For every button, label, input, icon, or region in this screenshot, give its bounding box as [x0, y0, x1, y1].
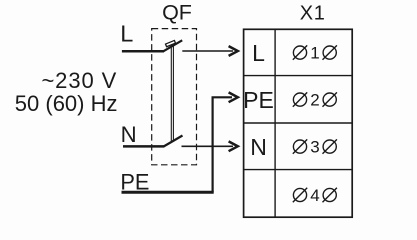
svg-text:PE: PE — [243, 87, 274, 113]
svg-text:L: L — [252, 40, 265, 66]
breaker QF pole 1 blade — [163, 40, 182, 51]
terminal block column divider — [274, 29, 276, 217]
svg-text:X1: X1 — [300, 3, 326, 25]
terminal 2 — [293, 92, 337, 106]
arrow L — [229, 46, 238, 56]
wire N input — [123, 145, 164, 148]
breaker QF pole 1 release box — [166, 40, 176, 46]
wire L output — [182, 50, 233, 52]
terminal 4 — [293, 188, 337, 202]
svg-text:3: 3 — [310, 138, 319, 157]
breaker QF mechanical link — [170, 46, 172, 141]
terminal block row dividers — [244, 75, 353, 77]
wire N output — [182, 145, 234, 147]
svg-text:PE: PE — [120, 169, 149, 194]
svg-text:QF: QF — [162, 1, 192, 25]
wire PE riser — [213, 97, 232, 192]
breaker QF pole 2 blade — [164, 136, 183, 147]
svg-text:~230 V: ~230 V — [41, 68, 117, 93]
terminal block X1 outline — [244, 29, 353, 217]
svg-text:4: 4 — [310, 186, 319, 205]
terminal 3 — [293, 139, 337, 153]
svg-text:N: N — [250, 134, 267, 160]
svg-text:2: 2 — [310, 91, 319, 110]
svg-text:50 (60) Hz: 50 (60) Hz — [15, 91, 118, 116]
arrow PE — [229, 92, 238, 102]
terminal 1 — [293, 45, 337, 59]
svg-text:1: 1 — [310, 44, 319, 63]
svg-text:L: L — [120, 20, 133, 46]
breaker QF enclosure (dashed) — [152, 29, 197, 165]
wire PE input — [122, 191, 214, 194]
wire L input — [122, 50, 164, 53]
arrow N — [229, 141, 238, 151]
svg-text:N: N — [121, 122, 137, 147]
